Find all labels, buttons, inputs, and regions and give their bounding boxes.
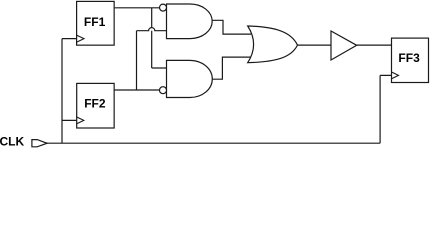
svg-text:FF3: FF3 (398, 51, 420, 65)
svg-text:FF2: FF2 (84, 97, 106, 111)
svg-text:FF1: FF1 (84, 15, 106, 29)
svg-text:CLK: CLK (0, 135, 24, 149)
